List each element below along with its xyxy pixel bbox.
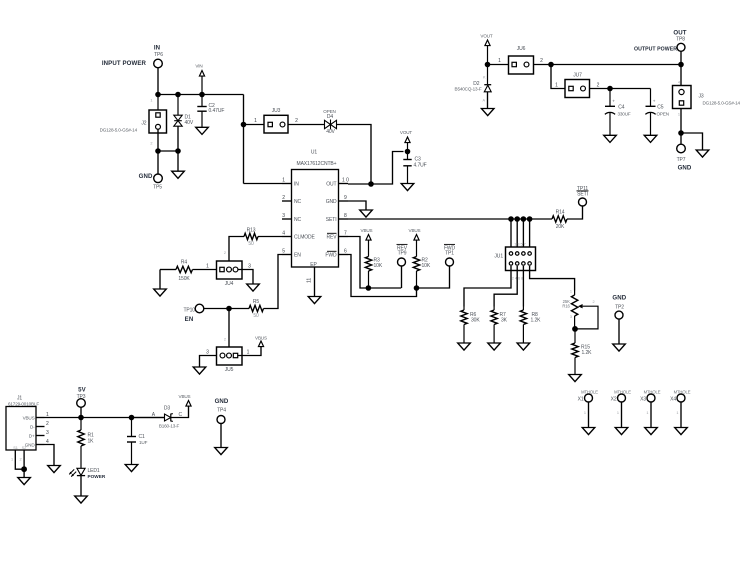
connector J1 pin stubs (36, 418, 45, 445)
wire JU1 pin8 to R16 (530, 266, 575, 291)
svg-text:2: 2 (46, 421, 49, 427)
svg-text:EP: EP (310, 262, 317, 268)
svg-text:JU3: JU3 (272, 108, 281, 114)
svg-text:20K: 20K (556, 224, 565, 230)
node junction J2 bottom (155, 148, 161, 154)
wire R5 to EN pin (264, 255, 283, 309)
svg-text:GND: GND (326, 199, 337, 205)
svg-text:JU6: JU6 (517, 46, 526, 52)
svg-text:1.2K: 1.2K (531, 318, 542, 324)
mounting hole X3 (640, 389, 661, 427)
diode D4 (OPEN) (323, 109, 336, 135)
net VBUS flag (D3) (179, 394, 192, 407)
resistor R1 (78, 418, 94, 469)
svg-text:D-: D- (30, 425, 35, 430)
svg-text:40V: 40V (185, 120, 194, 126)
ground below D2 (481, 109, 494, 116)
svg-text:JU1: JU1 (494, 254, 503, 260)
svg-text:NC: NC (294, 217, 302, 223)
svg-text:JU4: JU4 (225, 281, 234, 287)
svg-text:IN: IN (294, 182, 299, 188)
wire REV pin7 (348, 237, 401, 289)
svg-text:10K: 10K (374, 263, 383, 269)
svg-text:NC: NC (294, 199, 302, 205)
connector J1 pin names (13, 416, 35, 450)
svg-text:1: 1 (617, 411, 619, 415)
wire JU1 pin3 up (516, 219, 518, 254)
node junction EN/JU5 (226, 306, 232, 312)
wire JU1 pin4 to R7 (494, 266, 517, 307)
mounting hole X4 (670, 389, 691, 427)
capacitor C5 (polarized, OPEN) (645, 89, 669, 136)
svg-text:4: 4 (678, 80, 680, 84)
net VOUT flag (C3) (400, 130, 413, 152)
svg-text:1: 1 (247, 349, 250, 355)
testpoint TP3 (5V) (77, 386, 87, 407)
jumper JU3 (264, 108, 288, 133)
node junction J2 top (155, 92, 161, 98)
svg-text:U1: U1 (311, 150, 318, 156)
svg-text:3: 3 (248, 263, 251, 269)
wire EP to ground (314, 267, 316, 296)
ground below X1 (582, 428, 595, 435)
svg-text:1.2K: 1.2K (582, 350, 593, 356)
ground below R4 (154, 289, 167, 296)
ground below R15 (569, 375, 582, 382)
wire JU1 pin2 to R6 (464, 266, 511, 307)
pin 6 label (344, 249, 347, 255)
svg-text:1: 1 (206, 263, 209, 269)
resistor R15 (572, 329, 592, 374)
ground below C2 (196, 127, 209, 134)
svg-text:VIN: VIN (195, 64, 202, 69)
svg-text:1: 1 (678, 113, 680, 117)
svg-text:IN: IN (154, 45, 160, 52)
svg-text:VBUS: VBUS (361, 228, 373, 233)
svg-text:2: 2 (20, 458, 22, 462)
diode D3 (159, 405, 183, 428)
ground below EP (308, 297, 321, 304)
wire JU5 pin1 to VBUS (238, 347, 262, 356)
svg-text:TP2: TP2 (615, 304, 624, 310)
svg-text:3: 3 (570, 315, 572, 319)
pin name NC (3) (294, 217, 302, 223)
wire TP8 down (680, 51, 682, 85)
svg-text:X3: X3 (640, 397, 646, 403)
svg-text:OUT: OUT (673, 29, 686, 36)
testpoint TP2 (GND) (612, 295, 626, 320)
testpoint TP5 (GND) (139, 173, 163, 191)
wire TP6 to VIN rail (157, 68, 159, 95)
node junction JU1-1 (508, 216, 514, 222)
svg-text:POWER: POWER (88, 474, 106, 479)
svg-text:1UF: 1UF (139, 440, 148, 445)
svg-text:3: 3 (206, 349, 209, 355)
wire JU1 pin7 up (529, 219, 531, 254)
testpoint TP7 (GND) (677, 144, 692, 171)
svg-text:50: 50 (253, 313, 259, 319)
svg-text:1 0: 1 0 (342, 178, 349, 184)
svg-text:OUTPUT POWER: OUTPUT POWER (634, 46, 677, 52)
svg-text:VBUS: VBUS (179, 394, 191, 399)
ground below TP4 (215, 448, 228, 455)
svg-text:OUT: OUT (326, 182, 336, 188)
resistor R6 (461, 307, 481, 343)
jumper JU5 (217, 337, 243, 373)
node junction JU3 tap (241, 122, 247, 128)
ground below X4 (675, 428, 688, 435)
tvs diode D1 (174, 95, 194, 127)
svg-text:EN: EN (185, 316, 194, 323)
svg-text:D+: D+ (29, 434, 35, 439)
pin 8 label (344, 213, 347, 219)
svg-text:S2: S2 (22, 446, 27, 450)
svg-text:2: 2 (224, 337, 226, 341)
svg-text:JU7: JU7 (573, 73, 582, 79)
wire OUT pin10 (348, 152, 404, 185)
wire LED1 to ground (80, 476, 82, 496)
pin name EN (294, 253, 301, 259)
testpoint TP10 (EN) (183, 304, 203, 323)
testpoint TP4 (GND) (215, 398, 229, 424)
wire JU1 pin5 up (522, 219, 524, 254)
node junction JU1-3 (514, 216, 520, 222)
svg-text:DG128-5.0-GS#-14: DG128-5.0-GS#-14 (703, 100, 741, 105)
svg-text:TP8: TP8 (676, 37, 685, 43)
wire JU7 pin2 to C4 (590, 82, 611, 88)
pin 11 label (EP) (307, 278, 313, 283)
svg-text:CLMODE: CLMODE (294, 235, 316, 241)
ground below J1 pin4 (48, 466, 61, 473)
svg-text:3K: 3K (501, 318, 508, 324)
wire gnd link (158, 150, 178, 152)
wire J3 gnd branch (681, 133, 703, 150)
svg-text:REV: REV (327, 235, 338, 241)
mounting hole X2 (611, 389, 632, 427)
resistor R5 (249, 299, 264, 319)
connector J3 (673, 80, 741, 116)
pin 2 label (J1) (46, 421, 49, 427)
svg-text:0.47UF: 0.47UF (209, 108, 225, 114)
svg-text:2: 2 (282, 195, 285, 201)
wire J2 to gnd node (157, 129, 159, 151)
svg-text:10K: 10K (422, 263, 431, 269)
node junction J3 bottom (678, 130, 684, 136)
pin name CLMODE (294, 235, 316, 241)
node junction TP3/R1 (78, 415, 84, 421)
svg-text:J3: J3 (699, 94, 704, 100)
jumper JU4 (217, 251, 243, 287)
svg-text:11: 11 (307, 278, 313, 283)
node junction R2 bottom (414, 285, 420, 291)
svg-text:GND: GND (25, 443, 36, 448)
svg-text:2: 2 (295, 118, 298, 124)
svg-text:2: 2 (224, 251, 226, 255)
pin 3 label (J1) (46, 430, 49, 436)
connector JU1 (494, 242, 535, 280)
wire J1 shield S2 (20, 450, 25, 469)
node junction JU6/JU7 (548, 62, 554, 68)
svg-text:4.7UF: 4.7UF (414, 162, 427, 168)
wire JU3 pin1 (244, 118, 265, 124)
node junction R16/R15 (572, 326, 578, 332)
svg-text:GND: GND (139, 173, 153, 180)
wire VIN rail (158, 94, 244, 96)
wire VOUT to JU6 (488, 58, 509, 64)
svg-text:VBUS: VBUS (409, 228, 421, 233)
svg-text:1: 1 (584, 411, 586, 415)
svg-text:B160-13-F: B160-13-F (159, 423, 180, 428)
svg-text:VOUT: VOUT (480, 34, 493, 39)
svg-text:R16: R16 (562, 303, 570, 308)
ground below JU4 (247, 284, 260, 291)
pin 5 label (282, 249, 285, 255)
wire JU6 pin2 (534, 58, 552, 64)
svg-text:2: 2 (597, 82, 600, 88)
wire JU6 to JU7 (551, 65, 565, 89)
resistor R4 (160, 260, 220, 283)
svg-text:D3: D3 (164, 405, 171, 411)
pin 9 label (344, 195, 347, 201)
ground below D1 (172, 171, 185, 178)
wire J1 shield S1 (11, 450, 24, 469)
testpoint TP6 (IN) (154, 45, 164, 68)
pin 4 label (282, 231, 285, 237)
svg-text:2: 2 (150, 142, 152, 146)
wire R4 to ground (159, 270, 161, 289)
ground below C4 (604, 135, 617, 142)
ground below LED1 (75, 496, 88, 503)
wire C1 to D3 (132, 412, 165, 418)
wire TP2 to ground (618, 319, 620, 344)
pin 10 label (342, 178, 349, 184)
svg-text:MAX17612CNTB+: MAX17612CNTB+ (297, 161, 337, 167)
node junction J3 top (678, 62, 684, 68)
capacitor C3 (403, 152, 426, 184)
testpoint TP1 (FWD) (444, 244, 456, 266)
svg-text:R5: R5 (253, 299, 260, 305)
svg-text:4: 4 (282, 231, 285, 237)
svg-text:EN: EN (294, 253, 301, 259)
wire J3 to gnd node (680, 109, 682, 134)
svg-text:GND: GND (678, 165, 692, 172)
svg-text:+: + (612, 99, 615, 104)
svg-text:GND: GND (612, 295, 626, 302)
ground pin9 (360, 210, 373, 217)
ground below X3 (645, 428, 658, 435)
svg-text:1K: 1K (88, 438, 95, 444)
svg-text:TP9: TP9 (398, 251, 407, 257)
svg-text:C5: C5 (657, 104, 664, 110)
ground below X2 (615, 428, 628, 435)
svg-text:8: 8 (344, 213, 347, 219)
pin name IN (294, 182, 299, 188)
svg-text:30K: 30K (471, 318, 480, 324)
resistor R8 (520, 307, 541, 343)
svg-text:6: 6 (344, 249, 347, 255)
pin name REV (overline) (327, 233, 338, 240)
ground below R6 (458, 343, 471, 350)
node junction shield (21, 466, 27, 472)
testpoint TP9 (REV) (397, 244, 408, 266)
pin 7 label (344, 231, 347, 237)
jumper JU6 (509, 46, 534, 74)
svg-text:X4: X4 (670, 397, 676, 403)
wire D4 to OUT node (337, 125, 372, 185)
svg-text:+: + (653, 99, 656, 104)
led LED1 (POWER) (69, 468, 106, 479)
svg-text:TP6: TP6 (154, 52, 163, 58)
ground below R8 (517, 343, 530, 350)
net VBUS flag (R2) (409, 228, 421, 243)
svg-text:1 3 5 7: 1 3 5 7 (514, 242, 526, 246)
pin name NC (2) (294, 199, 302, 205)
ground below J3 (696, 150, 709, 157)
capacitor C2 (197, 95, 224, 128)
wire TP10 to R5 (204, 308, 249, 310)
wire C4 to C5 (610, 88, 651, 90)
ground below shield (18, 478, 31, 485)
svg-text:TP10: TP10 (183, 307, 195, 313)
node junction R3 bottom (366, 285, 372, 291)
wire to TP5 (157, 151, 159, 174)
op-amp U1 pin stubs (282, 184, 348, 255)
svg-text:9: 9 (344, 195, 347, 201)
node junction OUT/D4 (368, 181, 374, 187)
svg-text:LED1: LED1 (88, 468, 100, 474)
svg-text:61729-0010BLF: 61729-0010BLF (8, 401, 39, 406)
connector J1 body (6, 395, 39, 450)
node junction D1 top (175, 92, 181, 98)
svg-text:40V: 40V (326, 129, 335, 135)
resistor R2 (413, 243, 431, 288)
wire JU4 pin3 to gnd (238, 263, 254, 283)
svg-text:J2: J2 (141, 121, 146, 127)
svg-text:GND: GND (215, 398, 229, 405)
wire output rail (551, 64, 681, 66)
svg-text:SETI: SETI (577, 191, 588, 197)
pin name SETI (326, 217, 337, 223)
net VBUS flag (JU5) (255, 335, 267, 347)
pin 4 label (J1) (46, 439, 49, 445)
wire GND pin9 (348, 201, 366, 210)
svg-text:50: 50 (248, 241, 254, 247)
svg-text:1: 1 (282, 178, 285, 184)
ground below TP2 (613, 344, 626, 351)
svg-text:3: 3 (46, 430, 49, 436)
wire VIN rail drop (243, 95, 245, 184)
potentiometer R16 (562, 290, 598, 329)
wire FWD pin6 (348, 255, 417, 297)
pin name FWD (overline) (325, 251, 337, 258)
resistor R14 (552, 209, 567, 230)
wire to TP7 (680, 133, 682, 144)
ground below C1 (125, 465, 138, 472)
svg-text:INPUT POWER: INPUT POWER (102, 60, 147, 67)
wire TP9 down (401, 266, 403, 288)
label INPUT POWER (102, 60, 147, 67)
wire D3 to VBUS (171, 407, 189, 418)
svg-text:150K: 150K (178, 276, 190, 282)
wire JU1 pin1 up (510, 219, 512, 254)
net VBUS flag (R3) (361, 228, 373, 243)
svg-text:B540CQ-13-F: B540CQ-13-F (455, 87, 482, 92)
node junction VOUT/D2 (485, 62, 491, 68)
op-amp U1 body (292, 150, 339, 268)
diode D2 (455, 65, 492, 103)
label OUTPUT POWER (634, 46, 677, 52)
wire R14 to TP11 (567, 206, 583, 219)
ground below C3 (401, 184, 414, 191)
wire TP4 to ground (220, 424, 222, 448)
pin 1 label (J1) (46, 412, 49, 418)
svg-text:D4: D4 (327, 114, 334, 120)
svg-text:2: 2 (540, 58, 543, 64)
svg-text:1: 1 (150, 99, 152, 103)
svg-text:TP4: TP4 (217, 407, 226, 413)
svg-text:1: 1 (676, 411, 678, 415)
svg-text:TP5: TP5 (153, 185, 162, 191)
ground below C5 (644, 135, 657, 142)
pin 2 label (282, 195, 285, 201)
svg-text:JU5: JU5 (225, 367, 234, 373)
testpoint TP11 (SETI) (577, 186, 589, 206)
ground below R7 (488, 343, 501, 350)
pin name GND (326, 199, 337, 205)
node junction C4 top (607, 86, 613, 92)
svg-text:1: 1 (254, 118, 257, 124)
connector J2 (100, 95, 167, 146)
ground below JU5 (193, 367, 206, 374)
net VOUT flag (D2) (480, 34, 493, 65)
svg-text:2: 2 (593, 300, 595, 304)
svg-text:1: 1 (555, 82, 558, 88)
wire TP3 down (80, 407, 82, 417)
jumper JU7 (565, 73, 590, 98)
svg-text:330UF: 330UF (618, 111, 631, 116)
svg-text:X1: X1 (578, 397, 584, 403)
wire FWD to TP1 (417, 266, 450, 288)
svg-text:7: 7 (344, 231, 347, 237)
resistor R3 (365, 243, 383, 288)
node junction JU1-7 (527, 216, 533, 222)
wire D1 to gnd (177, 126, 179, 171)
capacitor C4 (polarized) (605, 89, 631, 136)
wire D2 to ground (487, 92, 489, 109)
wire JU1 pin6 to R8 (522, 266, 524, 307)
pin 3 label (282, 213, 285, 219)
node junction D1 bottom (175, 148, 181, 154)
node junction C2 top (199, 92, 205, 98)
svg-text:OPEN: OPEN (657, 111, 669, 116)
pin name EP (310, 262, 317, 268)
wire JU3 pin2 to D4 (288, 118, 325, 124)
wire EN to JU5 (228, 309, 230, 348)
svg-text:C4: C4 (618, 104, 625, 110)
testpoint TP8 (OUT) (673, 29, 686, 51)
svg-text:X2: X2 (611, 397, 617, 403)
svg-text:DG128-5.0-GS#-14: DG128-5.0-GS#-14 (100, 128, 138, 133)
svg-text:VOUT: VOUT (400, 130, 413, 135)
svg-text:S1: S1 (13, 446, 18, 450)
net VIN flag (195, 64, 204, 95)
pin 1 label (282, 178, 285, 184)
wire IN pin (244, 183, 283, 185)
node junction VOUT/C3 (405, 149, 411, 155)
svg-text:TP7: TP7 (677, 157, 686, 163)
svg-text:R14: R14 (556, 209, 565, 215)
wire SETI pin8 (348, 218, 552, 220)
